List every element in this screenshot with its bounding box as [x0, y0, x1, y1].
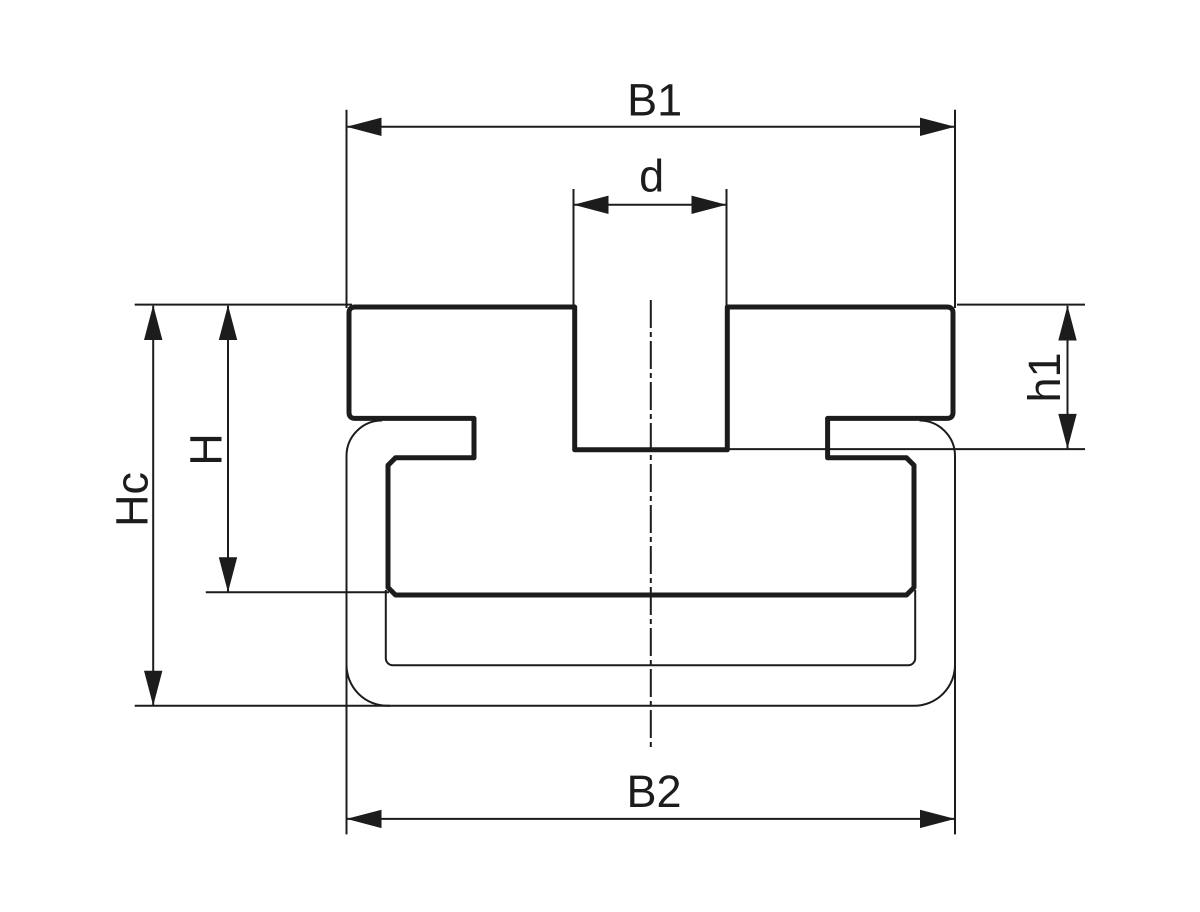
steel channel outer contour (thin)	[347, 421, 956, 706]
arrow B2 left	[347, 810, 382, 828]
extension line B2 left	[346, 665, 348, 835]
centerline (vertical dash-dot axis)	[650, 300, 652, 747]
dimension line d	[574, 204, 727, 206]
dimension line h1	[1067, 306, 1069, 449]
svg-text:B1: B1	[627, 75, 682, 126]
extension line d left	[573, 189, 575, 309]
arrow B1 left	[347, 118, 382, 136]
arrow B1 right	[920, 118, 955, 136]
arrow h1 down	[1058, 414, 1076, 449]
extension line top-left (Hc/H datum)	[135, 304, 352, 306]
arrow H down	[219, 557, 237, 592]
svg-text:B2: B2	[626, 766, 681, 817]
extension line h1 bottom	[727, 448, 1085, 450]
dimension line Hc	[152, 306, 154, 706]
extension line Hc bottom	[135, 705, 390, 707]
dimension line B1	[347, 126, 956, 128]
extension line B1 right	[954, 110, 956, 308]
svg-text:d: d	[639, 151, 664, 202]
extension line d right	[726, 189, 728, 309]
arrow Hc down	[144, 671, 162, 706]
arrow d left	[574, 196, 609, 214]
dimension line B2	[347, 818, 956, 820]
arrow B2 right	[920, 810, 955, 828]
extension line H bottom	[206, 591, 389, 593]
extension line B1 left	[346, 110, 348, 308]
arrow h1 up	[1058, 306, 1076, 341]
steel channel inner contour (thin)	[386, 590, 915, 665]
arrow d right	[692, 196, 727, 214]
extension line B2 right	[954, 665, 956, 835]
svg-text:h1: h1	[1019, 352, 1070, 402]
plastic guide profile outline (thick)	[349, 307, 953, 595]
svg-text:H: H	[181, 433, 232, 466]
svg-text:Hc: Hc	[107, 472, 158, 527]
arrow H up	[219, 305, 237, 340]
arrow Hc up	[144, 305, 162, 340]
dimension line H	[227, 306, 229, 593]
extension line top-right (h1 datum)	[957, 304, 1085, 306]
